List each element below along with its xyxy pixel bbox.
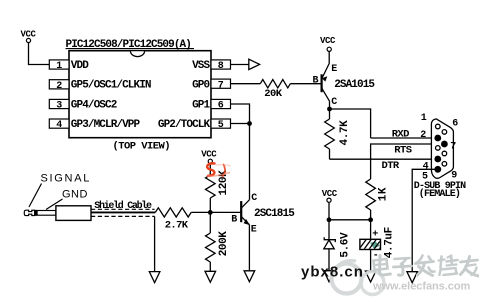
resistor R 2.7K [155,208,191,232]
wire collector to RXD corner [330,109,371,138]
svg-text:6: 6 [218,101,224,112]
pointer line GND to sleeve [46,199,63,210]
svg-text:GP2/TOCLK: GP2/TOCLK [158,119,211,131]
ground (DB9 pin5) [407,272,418,283]
label IC title [66,39,195,51]
pin 3 hole (D-SUB) [436,146,441,151]
wire 120K to node [209,198,211,212]
wire pin7 GP0 to 20K [231,83,261,85]
svg-text:GP5/OSC1/CLKIN: GP5/OSC1/CLKIN [71,80,151,92]
connector P1 audio plug tip [24,210,34,215]
ground (capacitor) [365,271,376,282]
svg-text:7: 7 [450,141,456,152]
pin 1 hole (D-SUB) [436,124,441,129]
wire 4.7K to DTR [329,149,331,159]
svg-text:Shield Cable: Shield Cable [94,200,152,212]
wire Q2 emitter to ground [248,225,250,271]
pin 8 box [211,60,231,72]
pin 7 box [211,79,231,91]
watermark logo ring [332,261,385,295]
wire pin5 GP2 [231,123,250,125]
svg-text:1K: 1K [378,187,390,201]
pin 4 box [49,119,69,131]
svg-text:E: E [331,64,337,75]
wire 2.7K to node [191,211,210,213]
svg-text:200K: 200K [218,231,230,257]
transistor Q2 2SC1815 (NPN) [241,200,250,225]
svg-text:5: 5 [218,120,224,131]
svg-text:1: 1 [421,113,427,124]
svg-text:1: 1 [56,61,62,72]
op IC U1 PIC12C508/PIC12C509(A) body [69,51,211,138]
pin 5 box [211,119,231,131]
node Q1 collector junction [327,107,332,112]
wire VCC to Q1 emitter [328,51,330,63]
power VCC (120K) [201,150,217,164]
wire signal conductor [91,211,155,213]
svg-text:2: 2 [56,81,62,92]
wire rail to capacitor [370,220,372,240]
wire 200K to ground [209,262,211,271]
wire VCC circle to rail [328,202,330,220]
ground (200K) [205,271,216,282]
wire RXD to DB9 pin2 [371,137,436,139]
pin 6 box [211,99,231,111]
connector J1 D-SUB 9PIN outline [431,119,453,178]
audio plug insulator band [35,210,38,216]
transistor Q1 2SA1015 (PNP) [322,64,330,110]
svg-text:VCC: VCC [320,36,336,46]
ground (shield) [149,272,160,283]
power VCC (supply rail) [322,189,338,202]
wire zener to ground [328,249,330,271]
svg-text:PIC12C508/PIC12C509(A): PIC12C508/PIC12C509(A) [66,39,191,51]
svg-text:DTR: DTR [382,160,400,172]
capacitor C1 4.7uF (electrolytic, hatched) [357,227,395,258]
pin 4 hole (D-SUB) [434,156,441,163]
svg-text:3: 3 [56,101,62,112]
svg-text:9: 9 [451,170,457,181]
wire shield to ground [154,216,156,271]
ground arrow (VSS, points right) [249,59,260,69]
wire VCC1 to pin 1 [29,43,50,65]
svg-text:2SC1815: 2SC1815 [254,208,295,220]
svg-text:4.7uF: 4.7uF [383,227,395,258]
red ink mark [207,163,230,176]
wire 1K to rail junction [370,210,372,220]
wire VCC to 120K [209,163,211,175]
node GP1/GP2 junction [247,121,252,126]
svg-text:5.6V: 5.6V [340,232,352,258]
pin 9 hole (D-SUB) [442,162,447,167]
pin 2 hole (D-SUB) [434,135,441,142]
svg-text:20K: 20K [264,88,282,100]
svg-text:GP1: GP1 [192,99,210,111]
svg-text:www.elecfans.com: www.elecfans.com [372,281,470,293]
wire cap to ground [370,250,372,272]
audio plug body [56,206,91,221]
resistor R 200K [206,231,231,262]
resistor R 4.7K [325,119,351,149]
svg-text:(FEMALE): (FEMALE) [419,188,460,200]
resistor R 120K [206,170,230,198]
pin 2 box [49,80,69,92]
svg-text:RXD: RXD [392,129,409,141]
pin 6 hole (D-SUB) [442,130,447,135]
svg-text:C: C [251,193,257,204]
wire RTS from DB9 pin7 [371,144,442,179]
wire node to 200K [209,212,211,233]
svg-text:VSS: VSS [192,60,210,72]
svg-text:4.7K: 4.7K [339,120,351,146]
svg-text:ybx8.cn: ybx8.cn [301,263,364,280]
wire supply rail [329,219,371,221]
wire rail to zener [328,220,330,240]
wire DB9 pin5 to ground [412,169,438,271]
pin 5 hole (D-SUB) [434,166,441,173]
wire node to Q2 base [210,211,241,213]
svg-text:B: B [231,214,237,225]
svg-text:GP0: GP0 [192,79,209,91]
diode D1 zener 5.6V [324,232,352,258]
svg-text:7: 7 [218,80,224,91]
pin 3 box [49,99,69,111]
svg-text:VDD: VDD [71,60,89,72]
power VCC (Q1 emitter) [320,36,336,51]
svg-text:SIGNAL: SIGNAL [41,172,92,184]
power VCC (top-left) [20,30,36,43]
node rail left junction [327,217,332,222]
wire junction down to Q2 collector [249,124,251,200]
node bias junction [208,210,213,215]
node rail right junction [368,217,373,222]
svg-text:E: E [251,225,257,236]
svg-text:VCC: VCC [201,150,217,160]
pin 8 hole (D-SUB) [442,151,447,156]
pin 1 box [49,60,69,72]
wire DTR to DB9 pin4 [330,158,437,160]
wire shield upper (dashed) [91,208,155,210]
wire Q1 collector down to R 4.7K [329,109,331,119]
svg-text:2: 2 [420,130,426,141]
wire pin8 VSS [231,64,249,66]
resistor R 1K [366,179,390,210]
svg-text:GND: GND [62,189,88,201]
svg-text:8: 8 [218,61,224,72]
watermark text (grey) [374,256,479,277]
ground (zener) [324,271,335,282]
wire shield lower (dashed) [91,215,155,217]
svg-text:6: 6 [452,118,458,129]
svg-text:2.7K: 2.7K [165,219,189,231]
svg-text:(TOP VIEW): (TOP VIEW) [113,141,171,153]
pin 7 hole (D-SUB) [441,141,448,148]
svg-text:4: 4 [56,120,62,131]
wire 20K to Q1 base [290,83,321,85]
svg-text:GP4/OSC2: GP4/OSC2 [71,99,117,111]
svg-text:B: B [313,75,319,86]
svg-text:RTS: RTS [394,144,411,156]
svg-text:2SA1015: 2SA1015 [334,79,375,91]
ground (Q2 emitter) [244,271,255,282]
audio plug shaft [37,211,56,216]
wire pin6 GP1 down [231,104,250,124]
svg-text:GP3/MCLR/VPP: GP3/MCLR/VPP [71,119,141,131]
svg-text:C: C [331,97,337,108]
resistor 20K [260,80,290,101]
pointer line SIGNAL to tip [29,184,42,208]
